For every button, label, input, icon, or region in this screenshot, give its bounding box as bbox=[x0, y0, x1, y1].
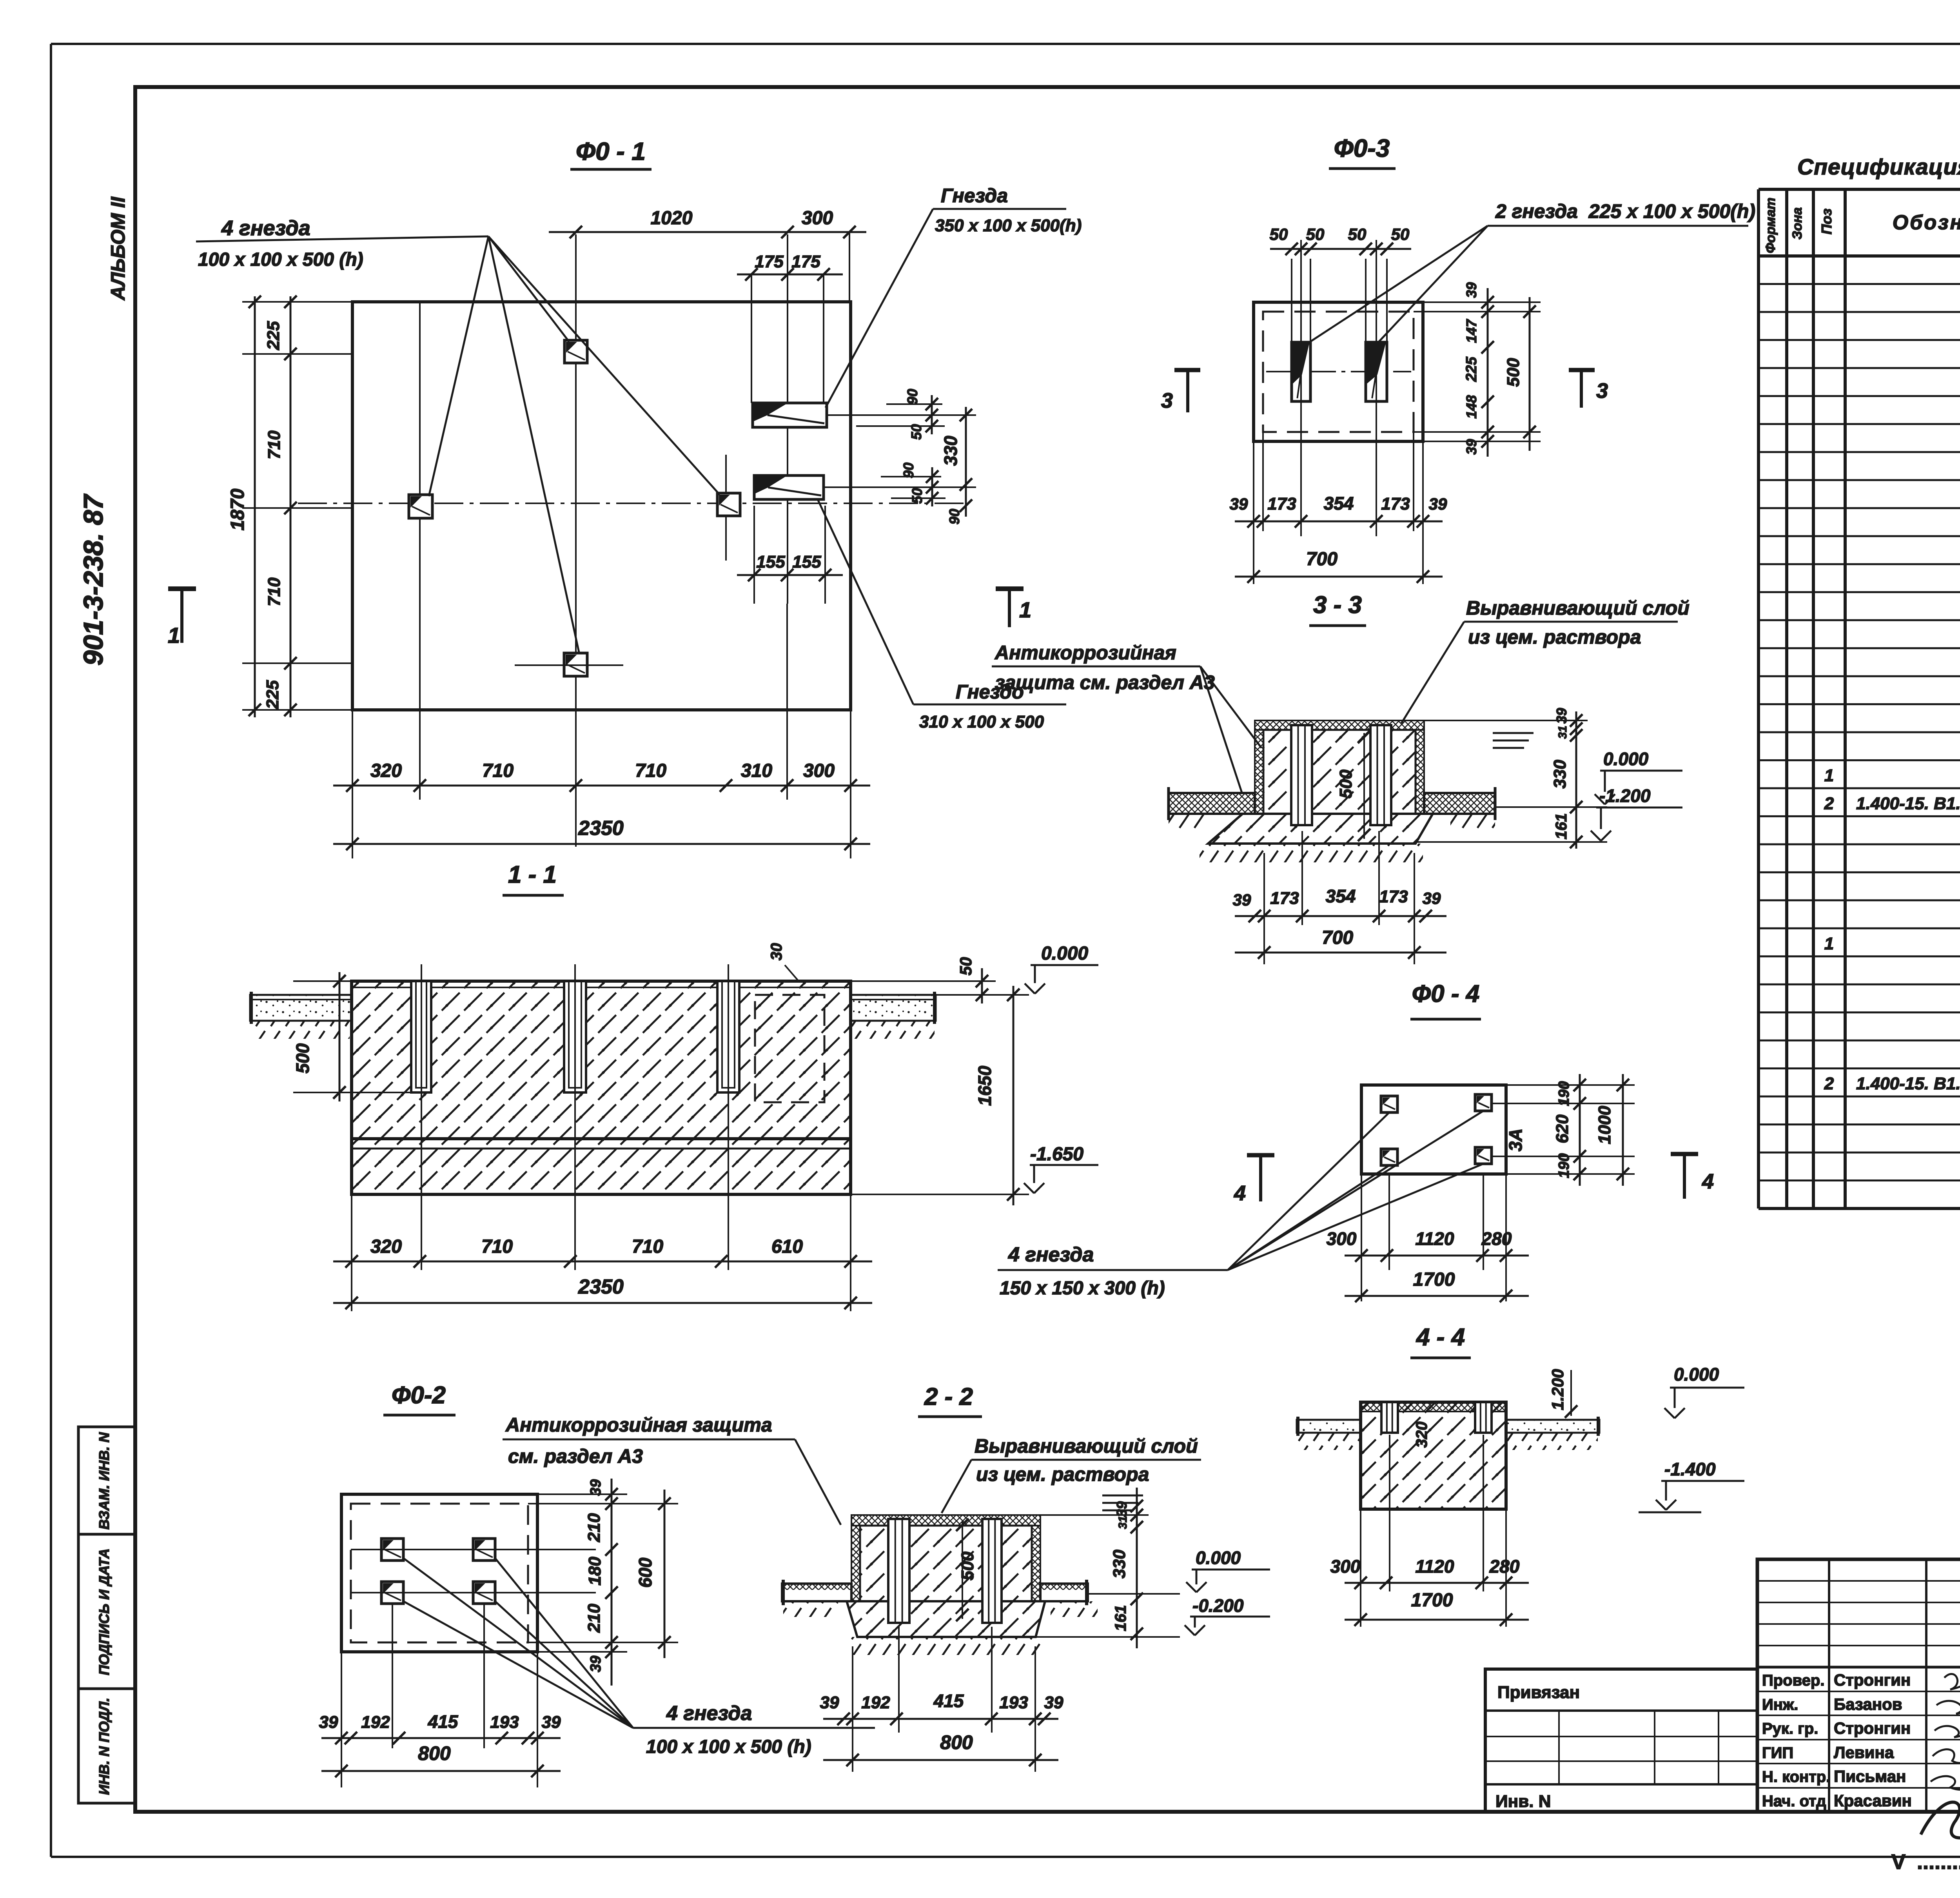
FO-4 label 3A bbox=[1505, 1129, 1526, 1152]
svg-text:50: 50 bbox=[908, 424, 924, 440]
svg-text:39: 39 bbox=[1233, 891, 1251, 909]
1-1 elevation -1.650 bbox=[1024, 1144, 1098, 1193]
svg-text:50: 50 bbox=[909, 488, 925, 504]
svg-text:300: 300 bbox=[803, 760, 835, 781]
svg-text:ИНВ. N ПОДЛ.: ИНВ. N ПОДЛ. bbox=[96, 1698, 112, 1795]
FO-3 dashed inset bbox=[1263, 312, 1414, 432]
1-1 ground strips bbox=[250, 992, 936, 1039]
svg-text:210: 210 bbox=[584, 1604, 604, 1633]
margin text Album II bbox=[107, 196, 129, 301]
FO-1 dim 155/155 bbox=[737, 506, 843, 604]
svg-text:280: 280 bbox=[1489, 1556, 1520, 1577]
svg-text:175: 175 bbox=[755, 252, 784, 271]
svg-text:700: 700 bbox=[1322, 927, 1353, 948]
svg-text:39: 39 bbox=[542, 1713, 561, 1732]
svg-text:Спецификация элементов фунда: Спецификация элементов фундаментов под о… bbox=[1797, 154, 1960, 180]
3-3 right dim chain bbox=[1416, 708, 1607, 849]
svg-text:620: 620 bbox=[1553, 1114, 1572, 1143]
svg-text:50: 50 bbox=[1270, 225, 1288, 243]
FO-1 slot1 centerline bbox=[827, 414, 976, 416]
svg-text:ПОДПИСЬ И ДАТА: ПОДПИСЬ И ДАТА bbox=[96, 1548, 112, 1675]
svg-text:610: 610 bbox=[771, 1236, 803, 1257]
1-1 foundation block bbox=[352, 981, 851, 1194]
svg-text:Левина: Левина bbox=[1834, 1743, 1894, 1762]
svg-text:147: 147 bbox=[1463, 319, 1479, 343]
svg-text:Антикоррозийная защита: Антикоррозийная защита bbox=[505, 1414, 772, 1436]
1-1 dashed nest bbox=[755, 995, 824, 1102]
svg-text:50: 50 bbox=[956, 957, 975, 976]
svg-text:320: 320 bbox=[370, 1236, 402, 1257]
FO-4 nest sq br bbox=[1475, 1147, 1492, 1164]
svg-text:Ф0 - 1: Ф0 - 1 bbox=[576, 137, 646, 165]
svg-text:901-3-238. 87: 901-3-238. 87 bbox=[78, 494, 109, 666]
svg-text:Обозначение: Обозначение bbox=[1893, 211, 1960, 234]
svg-text:4 гнезда: 4 гнезда bbox=[1008, 1243, 1094, 1266]
FO-3 section mark 3 right bbox=[1569, 370, 1608, 408]
FO-2 right dims 39/210/180/210/39 and 600 bbox=[528, 1479, 678, 1686]
svg-text:ГИП: ГИП bbox=[1762, 1744, 1793, 1762]
2-2 label leveling layer bbox=[942, 1435, 1201, 1513]
1-1 label 30 bbox=[768, 943, 800, 982]
svg-text:500: 500 bbox=[1336, 769, 1356, 798]
svg-text:из цем. раствора: из цем. раствора bbox=[1468, 626, 1641, 648]
4-4 bolt slot right bbox=[1475, 1402, 1492, 1433]
svg-text:155: 155 bbox=[756, 552, 785, 572]
FO-4 nest sq bl bbox=[1381, 1149, 1397, 1165]
svg-text:190: 190 bbox=[1556, 1153, 1572, 1178]
svg-text:Инв. N: Инв. N bbox=[1495, 1792, 1551, 1811]
FO-3 outline bbox=[1254, 302, 1423, 441]
svg-text:39: 39 bbox=[1553, 708, 1570, 724]
svg-text:310: 310 bbox=[741, 760, 772, 781]
FO-3 slot left bbox=[1292, 342, 1310, 401]
svg-text:225: 225 bbox=[264, 321, 283, 350]
svg-text:-1.200: -1.200 bbox=[1599, 786, 1651, 806]
1-1 dim 500 left bbox=[292, 972, 411, 1101]
FO-4 leader fan bbox=[1228, 1111, 1483, 1270]
2-2 anchor bolt left bbox=[888, 1519, 909, 1623]
FO-1 vertical axis center bbox=[575, 234, 577, 847]
FO-1 nest square right bbox=[717, 493, 740, 516]
svg-text:39: 39 bbox=[1044, 1693, 1063, 1712]
2-2 elevation 0.000 bbox=[1186, 1548, 1270, 1592]
svg-text:3: 3 bbox=[1161, 389, 1173, 412]
1-1 slot left bbox=[411, 981, 431, 1092]
note bottom signature line bbox=[1891, 1850, 1960, 1875]
svg-text:193: 193 bbox=[999, 1693, 1028, 1712]
FO-1 label 4 nests 100x100x500 bbox=[196, 216, 720, 652]
privyazan block bbox=[1485, 1669, 1757, 1812]
svg-text:330: 330 bbox=[1110, 1550, 1129, 1579]
svg-text:155: 155 bbox=[792, 552, 821, 572]
FO-2 nest tl bbox=[381, 1539, 403, 1560]
1-1 dim 1650 right bbox=[851, 986, 1029, 1205]
1-1 slot right bbox=[717, 981, 739, 1092]
svg-text:280: 280 bbox=[1481, 1228, 1512, 1249]
svg-text:39: 39 bbox=[1429, 495, 1447, 513]
svg-text:30: 30 bbox=[768, 943, 785, 961]
svg-text:1.400-15. В1. 120 - 05: 1.400-15. В1. 120 - 05 bbox=[1856, 1074, 1960, 1093]
3-3 foundation body bbox=[1169, 720, 1495, 862]
FO-4 nest sq tr bbox=[1475, 1094, 1492, 1111]
svg-text:39: 39 bbox=[820, 1693, 839, 1712]
svg-text:415: 415 bbox=[428, 1711, 459, 1732]
FO-3 center dash-dot bbox=[1266, 371, 1411, 372]
svg-text:90: 90 bbox=[900, 463, 916, 478]
2-2 foundation body bbox=[782, 1515, 1098, 1655]
section 2-2 title bbox=[918, 1383, 982, 1417]
svg-text:300: 300 bbox=[1330, 1556, 1361, 1577]
FO-3 slot right bbox=[1366, 342, 1387, 401]
svg-text:225: 225 bbox=[1463, 356, 1480, 382]
FO-2 dashed inset bbox=[351, 1504, 528, 1642]
2-2 bottom dims 39/192/415/193/39 and 800 bbox=[820, 1627, 1063, 1772]
FO-2 centerline top bbox=[351, 1549, 596, 1550]
svg-text:2: 2 bbox=[1824, 1074, 1834, 1093]
svg-text:150 x 150 x 300 (h): 150 x 150 x 300 (h) bbox=[1000, 1278, 1165, 1299]
svg-text:Поз: Поз bbox=[1818, 209, 1835, 234]
4-4 elevation 0.000 bbox=[1664, 1364, 1744, 1418]
svg-text:4: 4 bbox=[1702, 1170, 1714, 1193]
3-3 label anticorrosion bbox=[992, 642, 1261, 793]
FO-1 dim 175/175 bbox=[737, 252, 843, 403]
svg-text:300: 300 bbox=[1327, 1228, 1357, 1249]
svg-text:710: 710 bbox=[481, 1236, 513, 1257]
title block texts bbox=[1762, 1581, 1960, 1810]
FO-1 slab outline bbox=[352, 302, 851, 710]
svg-text:Стронгин: Стронгин bbox=[1834, 1671, 1911, 1689]
FO-2 label anticorrosion bbox=[503, 1414, 841, 1525]
svg-text:Красавин: Красавин bbox=[1834, 1791, 1912, 1810]
svg-text:0.000: 0.000 bbox=[1674, 1364, 1719, 1384]
svg-text:4 гнезда: 4 гнезда bbox=[221, 216, 310, 240]
FO-1 nest square left bbox=[409, 495, 432, 518]
title block grid bbox=[1757, 1559, 1960, 1812]
svg-text:354: 354 bbox=[1324, 493, 1354, 514]
svg-text:300: 300 bbox=[802, 208, 833, 229]
svg-text:2350: 2350 bbox=[578, 817, 624, 840]
svg-text:Провер.: Провер. bbox=[1762, 1672, 1824, 1689]
FO-1 slot 350x100 bbox=[753, 403, 827, 427]
svg-text:600: 600 bbox=[635, 1557, 655, 1588]
3-3 label leveling layer bbox=[1401, 597, 1690, 723]
svg-text:39: 39 bbox=[588, 1479, 604, 1496]
svg-text:Ф0 - 4: Ф0 - 4 bbox=[1412, 980, 1479, 1007]
svg-text:-1.650: -1.650 bbox=[1030, 1144, 1083, 1165]
svg-text:1870: 1870 bbox=[227, 488, 248, 530]
svg-text:39: 39 bbox=[319, 1713, 338, 1732]
svg-text:1650: 1650 bbox=[975, 1065, 995, 1106]
svg-text:50: 50 bbox=[1306, 225, 1325, 243]
svg-text:Ф0-3: Ф0-3 bbox=[1334, 134, 1390, 162]
2-2 anchor bolt right bbox=[982, 1519, 1002, 1623]
FO-2 label 4 nests bbox=[403, 1558, 875, 1757]
FO-1 nest square bottom bbox=[515, 653, 623, 676]
svg-text:1020: 1020 bbox=[651, 208, 693, 229]
2-2 dim 500 inside bbox=[956, 1519, 977, 1621]
FO-3 bottom dims 39/173/354/173/39 and 700 bbox=[1230, 432, 1447, 584]
FO-3 title bbox=[1329, 134, 1396, 169]
svg-text:320: 320 bbox=[370, 760, 402, 781]
FO-3 section mark 3 left bbox=[1161, 370, 1200, 412]
svg-text:3 - 3: 3 - 3 bbox=[1313, 592, 1362, 619]
FO-1 section mark 1 left bbox=[168, 589, 196, 648]
1-1 slot axes bbox=[421, 964, 728, 1270]
svg-text:2350: 2350 bbox=[578, 1276, 624, 1298]
3-3 elevation -1.200 bbox=[1591, 786, 1682, 841]
4-4 bolt slot left bbox=[1381, 1402, 1398, 1433]
svg-text:Н. контр.: Н. контр. bbox=[1762, 1768, 1830, 1785]
svg-text:148: 148 bbox=[1463, 395, 1479, 419]
svg-text:Ф0-2: Ф0-2 bbox=[392, 1382, 446, 1409]
svg-text:710: 710 bbox=[265, 577, 284, 606]
svg-text:700: 700 bbox=[1306, 549, 1338, 570]
svg-text:0.000: 0.000 bbox=[1196, 1548, 1241, 1568]
FO-3 slot axes bbox=[1301, 240, 1376, 536]
svg-text:320: 320 bbox=[1413, 1422, 1430, 1448]
svg-text:Письман: Письман bbox=[1834, 1767, 1906, 1785]
FO-2 bottom dims 39/192/415/193/39 and 800 bbox=[319, 1604, 561, 1787]
FO-2 nest tr bbox=[473, 1539, 495, 1560]
label 4 nests 150x150x300 bbox=[998, 1243, 1228, 1299]
svg-text:1700: 1700 bbox=[1413, 1269, 1455, 1290]
FO-4 nest sq tl bbox=[1381, 1096, 1397, 1112]
svg-text:Антикоррозийная: Антикоррозийная bbox=[994, 642, 1176, 664]
svg-text:500: 500 bbox=[958, 1551, 977, 1580]
svg-text:0.000: 0.000 bbox=[1603, 749, 1649, 769]
svg-text:2 - 2: 2 - 2 bbox=[924, 1383, 973, 1410]
1-1 bottom dims 320/710/710/610 and 2350 bbox=[333, 1194, 872, 1311]
svg-text:500: 500 bbox=[292, 1043, 313, 1073]
FO-3 top dims 50/50/50/50 bbox=[1270, 225, 1411, 342]
svg-text:193: 193 bbox=[490, 1713, 519, 1732]
FO-4 outline bbox=[1361, 1085, 1506, 1174]
svg-text:1000: 1000 bbox=[1595, 1106, 1614, 1144]
svg-text:161: 161 bbox=[1553, 813, 1570, 840]
svg-text:173: 173 bbox=[1379, 887, 1408, 906]
svg-text:1: 1 bbox=[1824, 934, 1834, 953]
1-1 elevation 0.000 bbox=[1025, 943, 1098, 994]
title block signatures bbox=[1921, 1674, 1960, 1838]
svg-text:710: 710 bbox=[635, 760, 666, 781]
svg-text:90: 90 bbox=[946, 509, 962, 524]
2-2 right dim chain bbox=[1036, 1488, 1180, 1648]
svg-text:710: 710 bbox=[265, 430, 284, 459]
svg-text:173: 173 bbox=[1267, 494, 1296, 514]
svg-text:180: 180 bbox=[585, 1557, 604, 1586]
FO-3 right dims 39/147/225/148/39 and 500 bbox=[1414, 282, 1541, 457]
1-1 dim 50 right bbox=[851, 957, 996, 1003]
svg-text:1: 1 bbox=[1824, 766, 1834, 785]
svg-text:1: 1 bbox=[1019, 597, 1031, 622]
svg-text:710: 710 bbox=[482, 760, 514, 781]
svg-text:39: 39 bbox=[1230, 495, 1248, 513]
svg-text:Выравнивающий слой: Выравнивающий слой bbox=[1466, 597, 1690, 619]
svg-text:защита см. раздел А3: защита см. раздел А3 bbox=[995, 671, 1215, 693]
3-3 anchor bolt right bbox=[1370, 725, 1391, 825]
svg-text:-1.400: -1.400 bbox=[1664, 1459, 1716, 1479]
3-3 dim 500 inside bbox=[1336, 731, 1370, 841]
4-4 label 320 inside bbox=[1413, 1422, 1430, 1448]
svg-text:Выравнивающий слой: Выравнивающий слой bbox=[975, 1435, 1198, 1457]
FO-2 title bbox=[383, 1382, 456, 1415]
svg-text:350 x 100 x 500(h): 350 x 100 x 500(h) bbox=[935, 216, 1082, 235]
svg-text:2: 2 bbox=[1824, 794, 1834, 813]
svg-text:1: 1 bbox=[168, 623, 180, 648]
svg-text:3: 3 bbox=[1596, 379, 1608, 403]
svg-text:31: 31 bbox=[1556, 726, 1569, 739]
FO-4 title bbox=[1410, 980, 1481, 1019]
section 3-3 title bbox=[1309, 592, 1366, 626]
FO-4 bottom dims 300/1120/280 and 1700 bbox=[1327, 1174, 1529, 1302]
FO-1 horizontal centerline bbox=[298, 503, 965, 504]
svg-text:Гнезда: Гнезда bbox=[941, 185, 1008, 207]
svg-text:1 - 1: 1 - 1 bbox=[508, 861, 557, 888]
svg-text:V: V bbox=[1891, 1850, 1906, 1874]
svg-text:0.000: 0.000 bbox=[1041, 943, 1088, 964]
FO-1 nest square top bbox=[564, 340, 587, 363]
svg-text:173: 173 bbox=[1270, 889, 1299, 908]
FO-1 slot2 centerline bbox=[824, 486, 976, 488]
svg-text:415: 415 bbox=[933, 1691, 964, 1711]
4-4 elevation -1.400 bbox=[1639, 1459, 1744, 1512]
3-3 elevation 0.000 bbox=[1595, 749, 1682, 804]
svg-text:50: 50 bbox=[1348, 225, 1367, 243]
svg-text:Базанов: Базанов bbox=[1834, 1695, 1902, 1713]
FO-1 section mark 1 right bbox=[996, 589, 1031, 627]
FO-2 nest br bbox=[473, 1582, 495, 1604]
FO-1 label nest 310x100x500 bbox=[817, 499, 1066, 731]
svg-text:90: 90 bbox=[904, 389, 920, 405]
svg-text:800: 800 bbox=[418, 1742, 451, 1764]
FO-4 section mark 4 right bbox=[1671, 1154, 1714, 1199]
svg-text:161: 161 bbox=[1112, 1605, 1129, 1631]
4-4 dim 1.200 bbox=[1548, 1369, 1577, 1418]
svg-text:1700: 1700 bbox=[1411, 1590, 1453, 1611]
FO-1 small dims 50/90/330 bbox=[856, 389, 972, 524]
svg-text:1120: 1120 bbox=[1416, 1228, 1454, 1249]
svg-text:1120: 1120 bbox=[1416, 1556, 1454, 1577]
4-4 bottom dims 300/1120/280 and 1700 bbox=[1330, 1435, 1529, 1627]
FO-1 slot 310x100 bbox=[754, 475, 824, 499]
specification table grid and header bbox=[1759, 154, 1960, 1208]
FO-1 title bbox=[570, 137, 652, 169]
svg-text:175: 175 bbox=[791, 252, 820, 271]
FO-1 label nest 350x100x500 bbox=[826, 185, 1082, 408]
svg-text:31: 31 bbox=[1116, 1516, 1129, 1529]
svg-text:-0.200: -0.200 bbox=[1192, 1595, 1244, 1616]
svg-text:190: 190 bbox=[1556, 1081, 1572, 1106]
svg-text:из цем. раствора: из цем. раствора bbox=[976, 1463, 1149, 1485]
FO-2 centerline bottom bbox=[351, 1592, 596, 1593]
svg-text:Формат: Формат bbox=[1763, 198, 1778, 253]
svg-text:330: 330 bbox=[940, 435, 961, 466]
svg-text:39: 39 bbox=[1463, 282, 1479, 298]
svg-text:173: 173 bbox=[1381, 494, 1410, 514]
svg-text:800: 800 bbox=[940, 1731, 973, 1753]
FO-4 section mark 4 left bbox=[1234, 1155, 1274, 1205]
svg-text:Стронгин: Стронгин bbox=[1834, 1719, 1911, 1737]
svg-text:310 x 100 x 500: 310 x 100 x 500 bbox=[919, 712, 1044, 731]
svg-text:АЛЬБОМ II: АЛЬБОМ II bbox=[107, 196, 129, 301]
svg-text:см. раздел А3: см. раздел А3 bbox=[508, 1445, 643, 1467]
svg-text:3А: 3А bbox=[1505, 1129, 1526, 1152]
svg-text:4: 4 bbox=[1234, 1181, 1246, 1205]
svg-text:710: 710 bbox=[632, 1236, 663, 1257]
svg-text:354: 354 bbox=[1326, 886, 1356, 906]
svg-text:500: 500 bbox=[1504, 358, 1523, 387]
svg-text:100 x 100 x 500 (h): 100 x 100 x 500 (h) bbox=[198, 249, 363, 270]
FO-1 vertical axis slots bbox=[787, 234, 788, 604]
bottom-left stamp column bbox=[78, 1427, 135, 1803]
svg-text:39: 39 bbox=[588, 1656, 604, 1672]
FO-3 label 2 nests bbox=[1302, 200, 1755, 347]
4-4 ground strips bbox=[1297, 1417, 1599, 1450]
margin text 901-3-238.87 bbox=[78, 494, 109, 666]
svg-text:50: 50 bbox=[1391, 225, 1410, 243]
svg-text:192: 192 bbox=[361, 1713, 390, 1732]
svg-text:Привязан: Привязан bbox=[1497, 1683, 1580, 1702]
svg-text:39: 39 bbox=[1423, 889, 1441, 907]
FO-1 vertical axis left nest bbox=[419, 302, 421, 800]
1-1 slot middle bbox=[564, 981, 586, 1092]
svg-text:..........: .......... bbox=[1917, 1850, 1960, 1874]
FO-1 left dim chain 225/710/710/225 and 1870 bbox=[227, 296, 352, 717]
FO-1 bottom dims 320/710/710/310/300 and 2350 bbox=[333, 604, 870, 858]
svg-text:1.200: 1.200 bbox=[1548, 1369, 1567, 1410]
specification table content bbox=[1824, 315, 1960, 1121]
svg-text:100 x 100 x 500 (h): 100 x 100 x 500 (h) bbox=[646, 1737, 811, 1757]
FO-4 right dims 190/620/190 and 1000 bbox=[1492, 1074, 1635, 1186]
3-3 anchor bolt left bbox=[1291, 725, 1312, 825]
section 4-4 title bbox=[1410, 1324, 1471, 1358]
FO-2 nest bl bbox=[381, 1582, 403, 1604]
svg-text:225: 225 bbox=[263, 680, 282, 709]
3-3 bottom dims 39/173/354/173/39 and 700 bbox=[1233, 831, 1446, 964]
svg-text:Инж.: Инж. bbox=[1762, 1696, 1798, 1713]
svg-text:4 - 4: 4 - 4 bbox=[1416, 1324, 1465, 1351]
svg-text:Нач. отд: Нач. отд bbox=[1762, 1793, 1826, 1810]
svg-text:ВЗАМ. ИНВ. N: ВЗАМ. ИНВ. N bbox=[96, 1432, 112, 1530]
svg-text:192: 192 bbox=[861, 1693, 890, 1712]
FO-2 outline bbox=[341, 1494, 537, 1652]
2-2 elevation -0.200 bbox=[1185, 1595, 1270, 1635]
FO-1 dim 1020/300 bbox=[549, 208, 866, 302]
svg-text:4 гнезда: 4 гнезда bbox=[666, 1702, 752, 1725]
svg-text:Зона: Зона bbox=[1790, 207, 1805, 240]
section 1-1 title bbox=[503, 861, 564, 895]
svg-text:2 гнезда 225 x 100 x 500(h): 2 гнезда 225 x 100 x 500(h) bbox=[1495, 200, 1755, 222]
svg-text:Рук. гр.: Рук. гр. bbox=[1762, 1720, 1818, 1737]
FO-1 vertical axis right nest bbox=[725, 455, 727, 561]
svg-text:1.400-15. В1. 120 - 05: 1.400-15. В1. 120 - 05 bbox=[1856, 794, 1960, 813]
svg-text:210: 210 bbox=[584, 1513, 604, 1542]
svg-text:330: 330 bbox=[1550, 760, 1570, 789]
4-4 foundation block bbox=[1361, 1402, 1506, 1509]
